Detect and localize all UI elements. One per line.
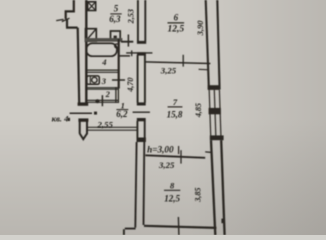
junction dot xyxy=(95,99,99,103)
svg-text:3: 3 xyxy=(101,76,107,86)
wall cap below entry door xyxy=(78,118,88,121)
svg-text:6,3: 6,3 xyxy=(109,14,121,24)
toilet door leaf xyxy=(112,79,125,81)
wall: left outer face xyxy=(66,19,79,103)
wall: hall/room7 (lower W1) xyxy=(137,118,146,121)
wall break symbol xyxy=(56,18,69,21)
entry door leaf xyxy=(70,112,92,114)
svg-text:15,8: 15,8 xyxy=(167,110,183,120)
window room7 (triple lines) xyxy=(209,90,221,139)
wall: left outer wall top with niche xyxy=(66,0,74,19)
mark below entry door line xyxy=(68,118,70,121)
wall: room2 right xyxy=(116,87,119,103)
wall: room8 bottom xyxy=(144,226,216,228)
wall toilet/room2 xyxy=(85,88,118,90)
wall: room8 left xyxy=(135,142,144,228)
svg-text:2: 2 xyxy=(105,89,111,99)
fraction bars xyxy=(110,13,121,15)
svg-text:2,53: 2,53 xyxy=(126,9,135,24)
bathroom door leaf xyxy=(119,55,130,57)
svg-text:5: 5 xyxy=(114,4,119,14)
pilaster line under partition xyxy=(199,68,209,71)
svg-text:3,90: 3,90 xyxy=(195,20,205,37)
black dot on east wall xyxy=(221,219,224,224)
wall: bathroom right xyxy=(118,39,120,89)
wall cap below window xyxy=(210,135,224,140)
window tick room8 bottom xyxy=(177,217,180,235)
tub faucet circle xyxy=(115,44,119,48)
toilet washbasin xyxy=(87,76,99,84)
wall bend bottom-left xyxy=(124,229,136,235)
svg-text:3,25: 3,25 xyxy=(158,160,175,170)
wall: kitchen/room6 (upper W1) xyxy=(138,0,145,41)
wall kitchen/bathroom (solid band) xyxy=(85,38,123,42)
tick room7/8 partition xyxy=(180,150,182,163)
svg-text:6,2: 6,2 xyxy=(116,109,128,119)
entry door dot xyxy=(94,112,97,115)
room6 door leaf xyxy=(126,52,152,54)
kitchen door leaf xyxy=(127,35,129,47)
jamb tick on room6 door line xyxy=(131,50,133,56)
room2 door leaf xyxy=(101,95,103,106)
window crossbar xyxy=(209,108,221,114)
svg-text:4,85: 4,85 xyxy=(194,103,203,118)
svg-text:12,5: 12,5 xyxy=(164,193,180,203)
wall cap above entry door xyxy=(78,102,89,105)
tick room6 partition xyxy=(182,55,184,67)
wall: east outer, segment A xyxy=(206,0,220,90)
svg-text:6: 6 xyxy=(174,12,179,22)
wall: left inner face xyxy=(85,0,87,103)
svg-text:2,55: 2,55 xyxy=(96,119,113,129)
wall room2/hall xyxy=(85,100,118,102)
wall room7/room8 partition xyxy=(145,155,205,158)
svg-text:кв. 4: кв. 4 xyxy=(52,114,69,124)
wall: left wall below entry, break V end xyxy=(80,121,87,139)
svg-text:4,70: 4,70 xyxy=(126,77,135,92)
cupboard box with diagonal xyxy=(86,29,97,42)
wall: corridor/room6-7 (mid W1) xyxy=(137,52,146,55)
wall: hallway bottom xyxy=(87,127,137,130)
wall: east outer, segment B xyxy=(211,140,225,235)
pilaster tick room8 top right xyxy=(205,151,210,153)
vent shaft box with X xyxy=(88,2,96,11)
svg-text:3,85: 3,85 xyxy=(194,187,203,202)
room7 door leaf xyxy=(133,111,150,113)
kitchen sink box xyxy=(111,31,121,40)
bathtub xyxy=(86,43,117,56)
svg-text:3,25: 3,25 xyxy=(160,66,177,76)
wall: corridor top xyxy=(121,41,133,43)
svg-text:h=3,00: h=3,00 xyxy=(147,144,174,154)
svg-text:8: 8 xyxy=(170,181,175,191)
svg-text:4: 4 xyxy=(101,57,106,67)
svg-text:12,5: 12,5 xyxy=(167,25,184,35)
tick near h=3,00 xyxy=(178,146,180,154)
wall bathroom/toilet xyxy=(85,70,119,72)
wall room6/room7 partition xyxy=(145,62,211,64)
